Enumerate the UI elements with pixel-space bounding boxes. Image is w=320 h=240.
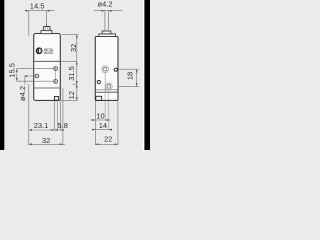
svg-text:32: 32 (42, 136, 50, 145)
svg-text:14: 14 (99, 121, 107, 130)
svg-text:ø4.2: ø4.2 (97, 0, 112, 9)
svg-text:31.5: 31.5 (67, 66, 76, 81)
svg-text:10: 10 (96, 111, 104, 120)
svg-text:14.5: 14.5 (30, 2, 45, 11)
svg-text:15.5: 15.5 (7, 63, 16, 78)
svg-text:12: 12 (67, 91, 76, 99)
svg-text:5.8: 5.8 (57, 121, 67, 130)
svg-text:22: 22 (104, 135, 112, 144)
svg-text:18: 18 (126, 72, 135, 80)
svg-text:23.1: 23.1 (34, 121, 49, 130)
svg-text:32: 32 (69, 44, 78, 52)
svg-text:WORK: WORK (44, 51, 55, 55)
svg-text:ø4.2: ø4.2 (18, 86, 27, 101)
